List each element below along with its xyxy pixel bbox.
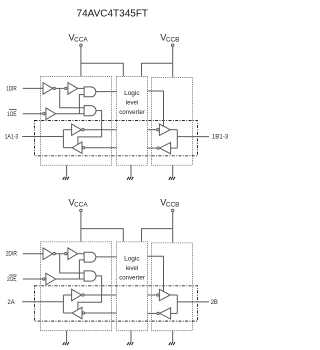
svg-text:2OE: 2OE: [7, 276, 17, 283]
svg-text:2A: 2A: [8, 299, 16, 306]
svg-text:1B1-3: 1B1-3: [212, 134, 229, 141]
svg-text:2B: 2B: [211, 299, 218, 306]
svg-text:2DIR: 2DIR: [6, 251, 17, 258]
svg-text:1OE: 1OE: [7, 111, 17, 118]
svg-text:74AVC4T345FT: 74AVC4T345FT: [77, 9, 149, 20]
svg-text:1A1-3: 1A1-3: [5, 134, 19, 141]
svg-text:1DIR: 1DIR: [6, 86, 17, 93]
